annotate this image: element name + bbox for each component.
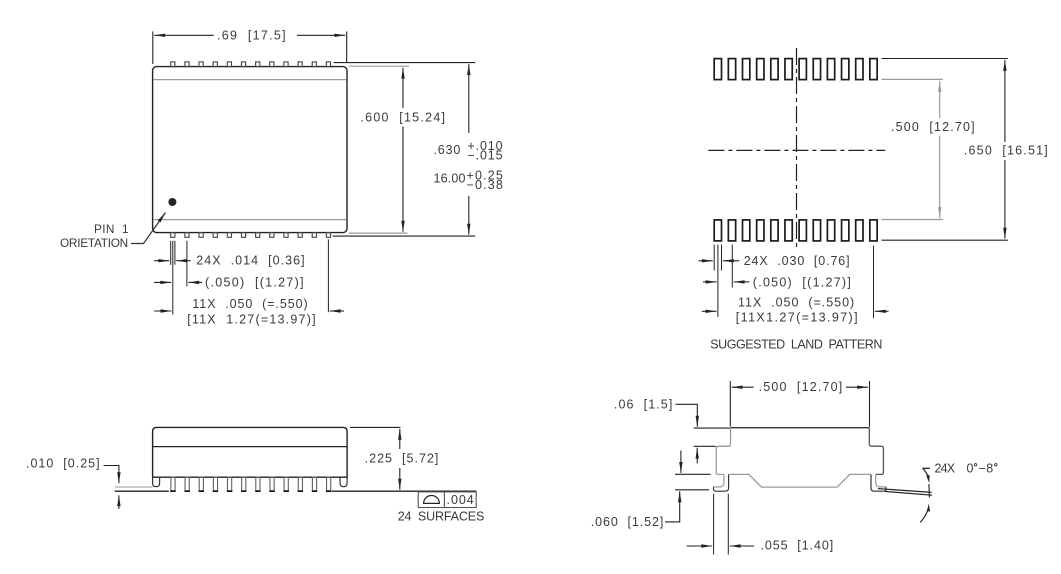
svg-text:.600 [15.24]: .600 [15.24]	[360, 110, 445, 124]
dim .600 vertical with arrows	[402, 68, 404, 232]
dim (.050) arrows	[154, 281, 202, 283]
end view right profile	[869, 428, 883, 474]
dim .500 vertical with arrows (gray)	[939, 81, 941, 218]
top view pin row bottom (12 pins)	[171, 233, 331, 238]
seating plane line right segment	[332, 490, 477, 492]
dim 11X .050 land arrows	[702, 310, 889, 312]
side view right corner pad	[340, 477, 347, 486]
corner pad foot extension line (gray)	[115, 486, 153, 488]
svg-text:16.00: 16.00	[434, 171, 466, 185]
svg-text:.004: .004	[447, 493, 475, 507]
seating plane line left segment	[115, 490, 169, 492]
svg-text:.650 [16.51]: .650 [16.51]	[964, 144, 1048, 158]
dim .225 extension line top	[350, 426, 401, 428]
svg-text:−0.38: −0.38	[467, 178, 504, 192]
end view top line	[730, 427, 869, 429]
dim .69 arrows	[154, 34, 345, 36]
end view left lead gull wing	[714, 475, 729, 492]
svg-text:.500 [12.70]: .500 [12.70]	[759, 380, 843, 394]
dim .225 vertical with arrows	[399, 429, 401, 490]
dim .630 vertical with arrows	[468, 64, 470, 235]
dim .010 leader with down arrow	[104, 466, 119, 484]
dim 24X .014 arrows	[154, 260, 191, 262]
land pattern vertical centerline	[796, 48, 798, 250]
pin 1 orientation dot	[168, 198, 176, 206]
svg-text:0: 0	[967, 462, 974, 476]
dim .06 up arrow	[696, 448, 698, 464]
dim .630 extension lines	[333, 63, 476, 237]
label 24 SURFACES	[398, 509, 485, 523]
svg-text:24X: 24X	[935, 462, 956, 476]
dim .06 extension lines	[694, 428, 730, 446]
end view right lead gull wing	[871, 475, 886, 492]
land pattern horizontal centerline	[708, 149, 885, 151]
side view left corner pad	[153, 477, 160, 486]
top view shoulder line upper	[153, 79, 346, 81]
svg-text:(.050) [(1.27)]: (.050) [(1.27)]	[205, 275, 304, 289]
lead flare angle lines 0-8 deg	[878, 489, 932, 496]
angle callout lower arc with arrow	[920, 504, 930, 523]
dim .060 extension lines	[675, 474, 711, 490]
dim .500 extension lines (gray)	[882, 79, 943, 219]
side view pin row (12 pins)	[170, 477, 331, 491]
svg-text:[11X1.27(=13.97)]: [11X1.27(=13.97)]	[736, 310, 858, 324]
angle callout upper arc with arrow	[923, 468, 930, 483]
end view left profile	[716, 428, 730, 474]
dim .600 extension lines (gray)	[349, 66, 409, 233]
angle callout crossing tick	[928, 484, 931, 498]
dim .500 end arrows	[732, 386, 868, 388]
land lower extension lines pad1	[714, 245, 873, 319]
dim .060 leader with up arrow	[665, 491, 680, 522]
svg-text:.055 [1.40]: .055 [1.40]	[761, 539, 834, 553]
dim .06 leader with down arrow	[676, 404, 698, 426]
side view lid line	[153, 446, 348, 448]
svg-text:.010 [0.25]: .010 [0.25]	[26, 456, 100, 470]
side view body outline	[153, 427, 348, 477]
flatness feature control frame	[418, 492, 476, 508]
dim .630 label with tolerance	[434, 139, 504, 163]
svg-text:.630: .630	[434, 143, 461, 157]
svg-text:.69 [17.5]: .69 [17.5]	[217, 28, 286, 42]
land pattern bottom pad row (12 pads)	[714, 220, 877, 241]
dim .010 up arrow	[118, 495, 120, 509]
svg-text:.060 [1.52]: .060 [1.52]	[591, 515, 664, 529]
land pattern top pad row (12 pads)	[714, 59, 877, 80]
dim .500 end extension lines	[730, 381, 869, 427]
dim .055 extension lines	[714, 494, 729, 555]
svg-text:24X .030 [0.76]: 24X .030 [0.76]	[744, 254, 850, 268]
svg-text:ORIETATION: ORIETATION	[60, 236, 129, 250]
dim 24X .030 arrows	[699, 260, 740, 262]
dim 16.00 metric label with tolerance	[434, 168, 504, 192]
svg-text:.06 [1.5]: .06 [1.5]	[614, 397, 673, 411]
label 24X 0-8 deg	[935, 462, 998, 476]
dim (.050) land arrows	[703, 281, 749, 283]
svg-text:24X .014 [0.36]: 24X .014 [0.36]	[196, 254, 305, 268]
svg-text:.500 [12.70]: .500 [12.70]	[891, 120, 975, 134]
angle callout hook	[923, 467, 930, 469]
svg-text:24 SURFACES: 24 SURFACES	[398, 509, 485, 523]
svg-text:−.015: −.015	[467, 149, 503, 163]
dim .060 down arrow	[680, 451, 682, 473]
pin 1 leader	[131, 213, 166, 244]
dim .650 extension lines	[882, 59, 1008, 241]
svg-text:.225 [5.72]: .225 [5.72]	[365, 451, 439, 465]
svg-text:11X .050 (=.550): 11X .050 (=.550)	[192, 297, 308, 311]
svg-text:[11X 1.27(=13.97)]: [11X 1.27(=13.97)]	[187, 313, 316, 327]
svg-text:11X .050 (=.550): 11X .050 (=.550)	[738, 296, 855, 310]
top view pin row top (12 pins)	[171, 62, 331, 67]
top view body outline	[153, 67, 347, 233]
dim .055 arrows	[687, 545, 755, 547]
plan lower extension lines pin1	[171, 240, 329, 315]
dim .69 extension lines	[153, 31, 347, 64]
end view bottom molded profile	[729, 474, 871, 487]
svg-text:SUGGESTED LAND PATTERN: SUGGESTED LAND PATTERN	[710, 337, 883, 351]
svg-text:PIN 1: PIN 1	[94, 222, 129, 236]
svg-text:(.050) [(1.27)]: (.050) [(1.27)]	[753, 275, 851, 289]
svg-text:−8: −8	[979, 462, 994, 476]
dim 11X .050 arrows	[154, 310, 344, 312]
dim .650 vertical with arrows	[1004, 60, 1006, 239]
top view shoulder line lower	[153, 219, 346, 221]
